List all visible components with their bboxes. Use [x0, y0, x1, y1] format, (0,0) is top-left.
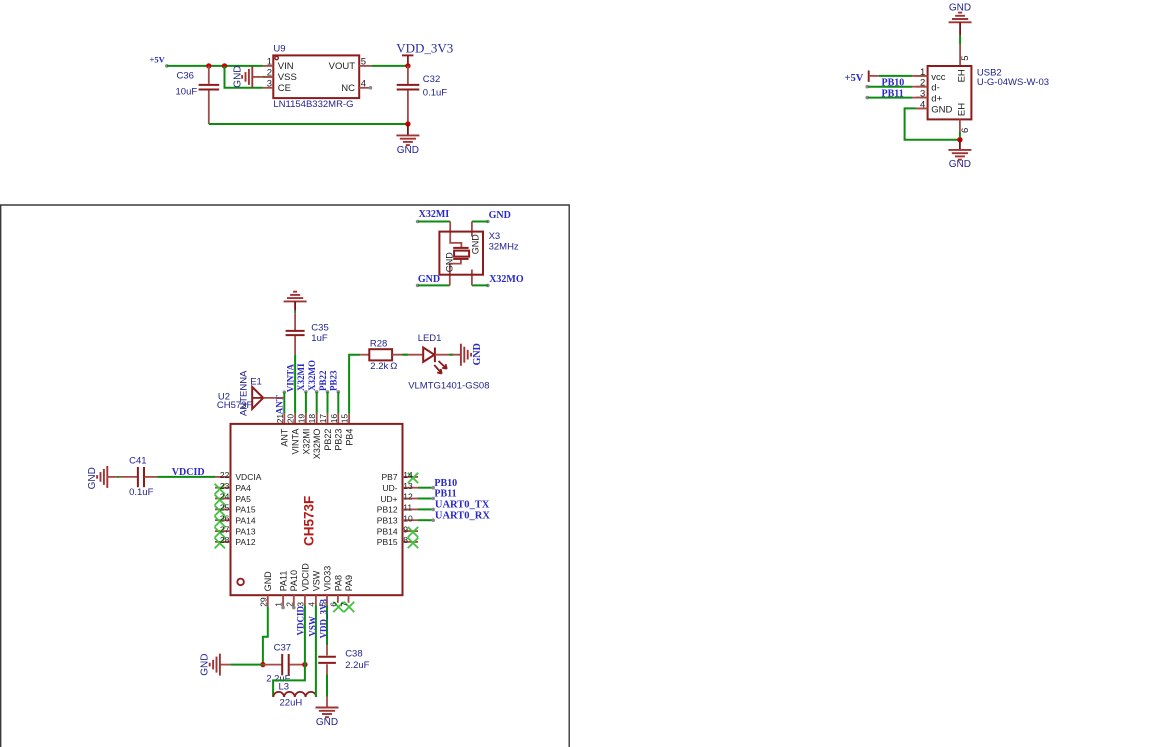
svg-text:2.2uF: 2.2uF — [345, 660, 369, 671]
svg-text:CH573F: CH573F — [302, 496, 317, 546]
svg-text:19: 19 — [296, 414, 306, 424]
svg-text:22: 22 — [220, 470, 230, 480]
svg-text:1: 1 — [267, 57, 272, 68]
svg-text:CE: CE — [278, 83, 291, 94]
svg-text:UART0_TX: UART0_TX — [435, 500, 490, 511]
svg-text:GND: GND — [931, 104, 952, 115]
svg-text:X3: X3 — [489, 231, 501, 242]
svg-text:VDCID: VDCID — [300, 563, 310, 592]
svg-text:PB12: PB12 — [377, 505, 398, 515]
svg-text:0.1uF: 0.1uF — [423, 87, 447, 98]
svg-text:LED1: LED1 — [418, 333, 442, 344]
svg-text:UD+: UD+ — [380, 494, 397, 504]
svg-text:VSW: VSW — [307, 616, 317, 637]
svg-text:26: 26 — [220, 513, 230, 523]
svg-text:0.1uF: 0.1uF — [129, 487, 153, 498]
svg-text:17: 17 — [318, 414, 328, 424]
svg-text:9: 9 — [403, 524, 408, 534]
svg-text:22uH: 22uH — [280, 697, 303, 708]
svg-text:25: 25 — [220, 503, 230, 513]
svg-text:GND: GND — [949, 159, 971, 170]
svg-text:X32MO: X32MO — [489, 274, 524, 285]
svg-text:X32MI: X32MI — [419, 209, 450, 220]
svg-text:PB23: PB23 — [329, 370, 339, 391]
svg-text:ANT: ANT — [280, 428, 290, 447]
svg-text:23: 23 — [220, 481, 230, 491]
svg-text:PA9: PA9 — [344, 575, 354, 591]
svg-text:VDD_3V3: VDD_3V3 — [396, 40, 453, 55]
svg-text:PB15: PB15 — [377, 537, 398, 547]
svg-text:C41: C41 — [129, 455, 146, 466]
svg-text:EH: EH — [957, 69, 968, 82]
svg-text:X32MO: X32MO — [307, 360, 317, 391]
svg-text:GND: GND — [263, 571, 273, 592]
svg-text:C36: C36 — [177, 70, 194, 81]
svg-text:L3: L3 — [279, 682, 290, 693]
svg-text:2.2kΩ: 2.2kΩ — [370, 361, 397, 372]
svg-text:28: 28 — [220, 535, 230, 545]
svg-text:d+: d+ — [931, 93, 942, 104]
svg-text:PA15: PA15 — [235, 505, 255, 515]
svg-text:E1: E1 — [250, 377, 262, 388]
svg-text:VDD_3V3: VDD_3V3 — [318, 599, 328, 639]
svg-text:5: 5 — [960, 56, 971, 61]
svg-text:20: 20 — [286, 414, 296, 424]
svg-text:VOUT: VOUT — [329, 61, 356, 72]
svg-text:15: 15 — [340, 414, 350, 424]
svg-text:PA12: PA12 — [235, 537, 255, 547]
svg-text:2: 2 — [267, 68, 272, 79]
svg-text:PB11: PB11 — [434, 489, 456, 500]
svg-text:EH: EH — [957, 103, 968, 116]
svg-text:8: 8 — [403, 535, 408, 545]
svg-text:24: 24 — [220, 492, 230, 502]
svg-text:R28: R28 — [370, 338, 387, 349]
svg-text:GND: GND — [316, 717, 338, 728]
svg-text:U9: U9 — [273, 44, 285, 55]
svg-text:GND: GND — [489, 210, 511, 221]
svg-text:29: 29 — [258, 597, 268, 607]
svg-text:U-G-04WS-W-03: U-G-04WS-W-03 — [977, 77, 1049, 88]
svg-text:14: 14 — [403, 470, 413, 480]
svg-text:PA5: PA5 — [235, 494, 251, 504]
svg-text:VIO33: VIO33 — [322, 566, 332, 592]
svg-text:+5V: +5V — [845, 73, 864, 84]
svg-text:VLMTG1401-GS08: VLMTG1401-GS08 — [408, 380, 489, 391]
svg-text:VINTA: VINTA — [291, 429, 301, 455]
svg-text:GND: GND — [199, 654, 210, 676]
svg-text:PB4: PB4 — [345, 429, 355, 446]
svg-text:18: 18 — [307, 414, 317, 424]
svg-text:10uF: 10uF — [176, 86, 198, 97]
svg-text:27: 27 — [220, 524, 230, 534]
svg-text:CH573F: CH573F — [217, 400, 253, 411]
svg-text:PB22: PB22 — [318, 370, 328, 391]
svg-text:PB22: PB22 — [323, 429, 333, 451]
svg-text:GND: GND — [233, 65, 244, 87]
svg-text:6: 6 — [328, 602, 338, 607]
svg-text:2: 2 — [284, 602, 294, 607]
svg-text:VIN: VIN — [278, 61, 294, 72]
svg-text:PA4: PA4 — [235, 483, 251, 493]
svg-text:UD-: UD- — [382, 483, 397, 493]
svg-text:C35: C35 — [311, 322, 328, 333]
svg-text:10: 10 — [403, 513, 413, 523]
svg-text:GND: GND — [445, 252, 455, 273]
svg-text:C37: C37 — [274, 642, 291, 653]
svg-text:d-: d- — [931, 83, 939, 94]
svg-text:PB7: PB7 — [382, 472, 398, 482]
svg-text:GND: GND — [418, 274, 440, 285]
svg-text:NC: NC — [341, 83, 355, 94]
svg-text:X32MI: X32MI — [301, 429, 311, 455]
svg-text:12: 12 — [403, 492, 413, 502]
svg-text:VDCIA: VDCIA — [235, 472, 261, 482]
svg-text:PA10: PA10 — [289, 570, 299, 591]
svg-text:32MHz: 32MHz — [489, 241, 519, 252]
svg-text:C38: C38 — [345, 648, 362, 659]
svg-text:PA8: PA8 — [333, 575, 343, 591]
svg-text:1uF: 1uF — [311, 333, 328, 344]
svg-text:GND: GND — [470, 234, 480, 255]
svg-text:6: 6 — [960, 128, 971, 133]
svg-text:13: 13 — [403, 481, 413, 491]
svg-text:GND: GND — [397, 145, 419, 156]
svg-text:LN1154B332MR-G: LN1154B332MR-G — [273, 99, 353, 110]
svg-text:X32MI: X32MI — [296, 363, 306, 391]
svg-text:VDCID: VDCID — [172, 467, 205, 478]
svg-text:PB13: PB13 — [377, 516, 398, 526]
svg-text:PB10: PB10 — [434, 478, 457, 489]
svg-text:11: 11 — [403, 503, 412, 513]
svg-text:PB23: PB23 — [334, 429, 344, 451]
svg-text:VSW: VSW — [311, 570, 321, 591]
svg-text:1: 1 — [274, 602, 284, 607]
svg-text:VDCID: VDCID — [296, 605, 306, 635]
svg-text:+5V: +5V — [150, 54, 166, 64]
svg-text:UART0_RX: UART0_RX — [435, 510, 490, 521]
svg-text:21: 21 — [275, 414, 285, 424]
svg-text:PA13: PA13 — [235, 526, 255, 536]
svg-text:16: 16 — [329, 414, 339, 424]
svg-text:PB14: PB14 — [377, 526, 398, 536]
svg-text:3: 3 — [267, 79, 272, 90]
svg-text:PA14: PA14 — [235, 516, 255, 526]
svg-text:vcc: vcc — [931, 72, 946, 83]
svg-text:PA11: PA11 — [279, 571, 289, 592]
svg-text:GND: GND — [472, 343, 483, 365]
svg-text:7: 7 — [339, 602, 349, 607]
svg-text:VINTA: VINTA — [285, 363, 295, 392]
svg-text:X32MO: X32MO — [312, 429, 322, 460]
svg-text:VSS: VSS — [278, 72, 297, 83]
svg-text:C32: C32 — [423, 74, 440, 85]
